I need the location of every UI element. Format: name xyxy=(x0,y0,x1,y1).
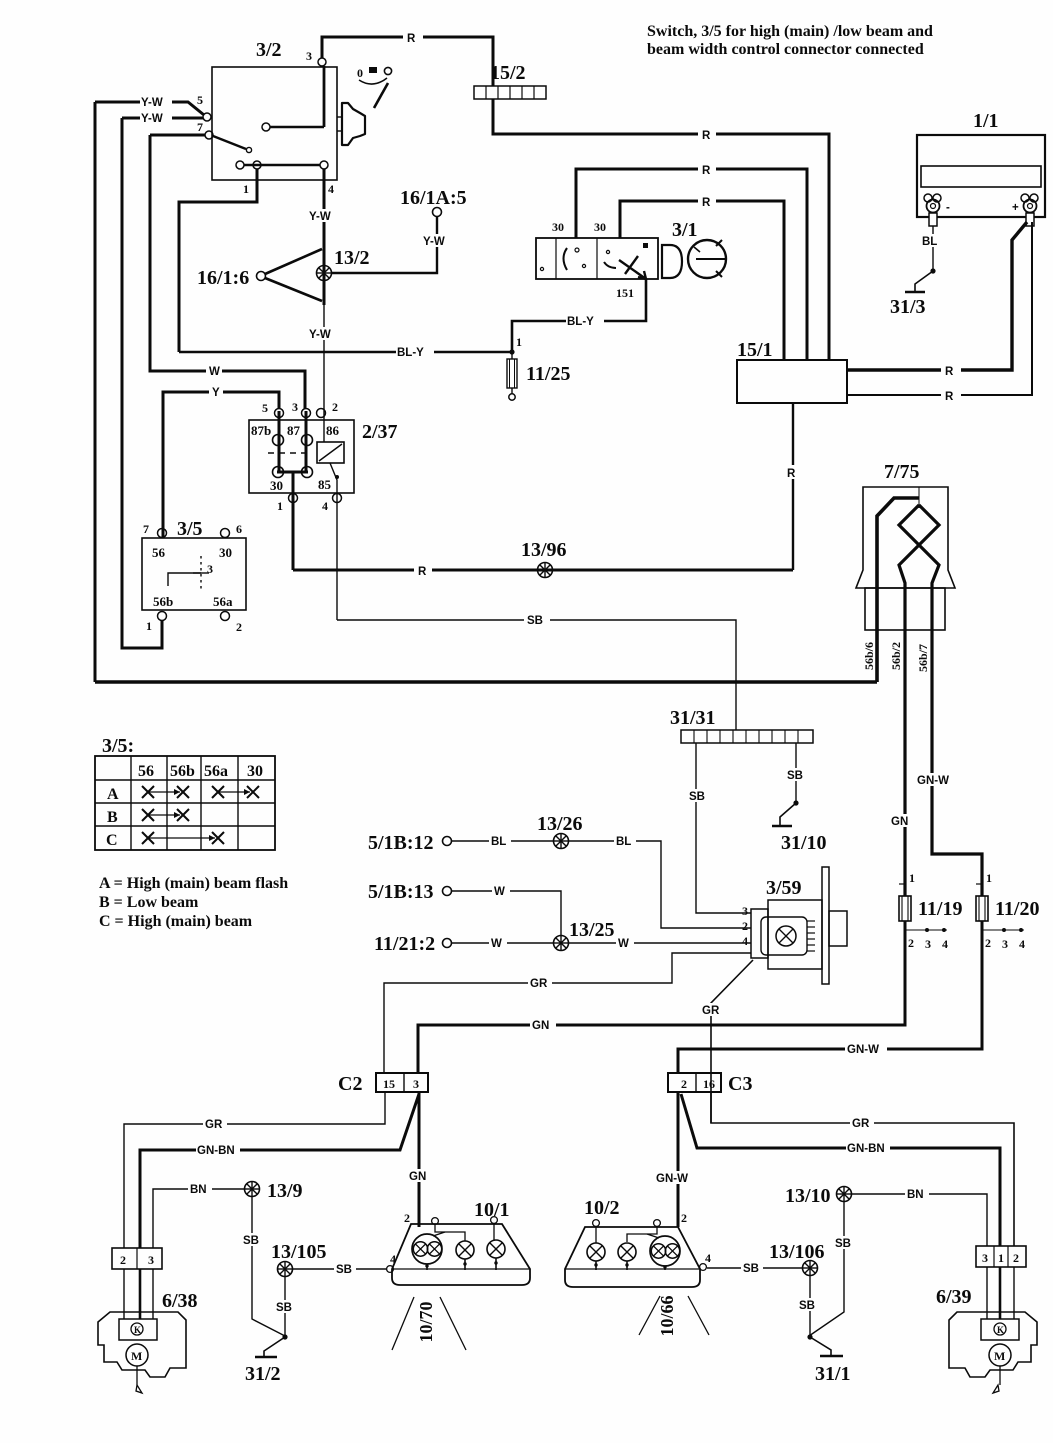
second left vertical wire to 3/5 pin1 xyxy=(122,118,162,648)
svg-text:K: K xyxy=(134,1325,141,1335)
svg-text:10/2: 10/2 xyxy=(584,1197,620,1219)
svg-text:13/105: 13/105 xyxy=(271,1241,327,1263)
ignition switch 3/1 xyxy=(536,219,698,300)
ground 31/1 xyxy=(807,1334,850,1385)
svg-text:11/25: 11/25 xyxy=(526,363,570,385)
wire R from 15/1 down to 13/96 line xyxy=(783,403,803,570)
svg-text:R: R xyxy=(702,165,711,177)
svg-text:56a: 56a xyxy=(204,763,228,780)
svg-text:4: 4 xyxy=(942,937,948,951)
svg-text:GR: GR xyxy=(852,1118,870,1130)
svg-text:2: 2 xyxy=(908,936,914,950)
svg-text:6: 6 xyxy=(236,522,242,536)
battery 1/1 xyxy=(917,110,1045,226)
connector 3|1|2 right xyxy=(976,1246,1026,1267)
svg-text:B = Low beam: B = Low beam xyxy=(99,894,199,911)
header note text line 1 xyxy=(647,23,933,58)
svg-text:M: M xyxy=(994,1349,1005,1363)
svg-text:GN-W: GN-W xyxy=(656,1173,688,1185)
svg-text:56: 56 xyxy=(152,545,166,560)
svg-text:4: 4 xyxy=(328,182,334,196)
fuse 11/25 xyxy=(507,335,570,400)
svg-text:1: 1 xyxy=(243,182,249,196)
wire SB from 13/10 to ground 31/1 xyxy=(809,1202,855,1336)
wire SB from relay 85 to 31/31 xyxy=(337,613,736,730)
svg-text:SB: SB xyxy=(787,770,803,782)
svg-text:10/70: 10/70 xyxy=(416,1301,436,1342)
svg-text:1: 1 xyxy=(909,871,915,885)
svg-text:10/66: 10/66 xyxy=(657,1295,677,1336)
svg-text:56b: 56b xyxy=(153,594,173,609)
svg-text:1: 1 xyxy=(998,1251,1004,1265)
svg-text:31/3: 31/3 xyxy=(890,296,926,318)
svg-text:2: 2 xyxy=(681,1211,687,1225)
svg-text:BL: BL xyxy=(616,836,631,848)
wire SB from 31/31 to 3/59 pin3 xyxy=(687,743,751,913)
svg-text:13/106: 13/106 xyxy=(769,1241,825,1263)
terminal 16/1A:5 xyxy=(332,187,467,273)
svg-text:0: 0 xyxy=(357,66,363,80)
svg-text:3: 3 xyxy=(413,1077,419,1091)
wire R from 15/2 to 15/1 xyxy=(493,99,829,360)
wire GN label on middle leg xyxy=(889,814,915,828)
svg-text:BN: BN xyxy=(190,1184,207,1196)
svg-text:5: 5 xyxy=(262,401,268,415)
wire W from 3/2 pin7 down and to relay pin3 xyxy=(150,135,305,409)
connector 7/75 (load compensation) xyxy=(856,461,955,630)
svg-text:A = High (main) beam flash: A = High (main) beam flash xyxy=(99,875,288,892)
svg-text:beam width control connector c: beam width control connector connected xyxy=(647,41,924,58)
svg-text:2: 2 xyxy=(985,936,991,950)
connector C2 xyxy=(338,1073,428,1095)
wire SB from 13/106 to ground 31/1 xyxy=(797,1276,819,1336)
svg-text:11/20: 11/20 xyxy=(995,898,1039,920)
wire GR from C2 down to left connector xyxy=(124,1092,385,1248)
svg-text:R: R xyxy=(945,366,954,378)
knob icon of 3/2 xyxy=(337,103,365,145)
svg-text:1/1: 1/1 xyxy=(973,110,999,132)
lever icon near 3/2 xyxy=(357,66,392,108)
svg-text:GR: GR xyxy=(205,1119,223,1131)
svg-text:SB: SB xyxy=(527,615,543,627)
left border vertical wire (outer) xyxy=(94,102,97,682)
svg-text:3: 3 xyxy=(207,562,213,576)
wire GN-W from C3 down to lamp 10/2 xyxy=(655,1092,697,1227)
ground strip 31/31 xyxy=(670,707,813,743)
svg-text:87b: 87b xyxy=(251,423,271,438)
svg-text:Y-W: Y-W xyxy=(141,97,163,109)
svg-text:7/75: 7/75 xyxy=(884,461,920,483)
svg-text:A: A xyxy=(107,786,119,803)
svg-text:Y-W: Y-W xyxy=(141,113,163,125)
wire BL-Y from left vertical to junction and ignition 151 xyxy=(179,279,646,359)
svg-text:5/1B:13: 5/1B:13 xyxy=(368,881,434,903)
svg-text:BL: BL xyxy=(922,236,937,248)
svg-text:30: 30 xyxy=(552,220,564,234)
wire R from 3/2 pin3 to fuse 15/2 xyxy=(322,37,493,86)
svg-text:2: 2 xyxy=(120,1253,126,1267)
connector 2|3 left xyxy=(112,1248,162,1269)
svg-text:2: 2 xyxy=(404,1211,410,1225)
ground 31/10 xyxy=(772,800,827,854)
svg-text:3: 3 xyxy=(742,904,748,918)
svg-text:GN: GN xyxy=(532,1020,549,1032)
label 10/66 with rays xyxy=(639,1295,709,1336)
table 3/5 contact chart xyxy=(95,735,275,850)
svg-text:4: 4 xyxy=(742,934,748,948)
svg-text:4: 4 xyxy=(390,1252,396,1266)
svg-text:13/26: 13/26 xyxy=(537,813,583,835)
switch 3/59 (beam width control) xyxy=(742,867,847,984)
svg-text:56b/6: 56b/6 xyxy=(862,642,876,670)
wire GN-W from 11/20 down to C3 xyxy=(678,921,982,1073)
svg-text:31/1: 31/1 xyxy=(815,1363,851,1385)
svg-text:Switch, 3/5 for high (main) /l: Switch, 3/5 for high (main) /low beam an… xyxy=(647,23,933,40)
svg-text:1: 1 xyxy=(516,335,522,349)
table row B contacts xyxy=(142,809,189,821)
wire GR from 3/59 to C2 xyxy=(384,953,751,1073)
wire R from relay pin30 down to 13/96 line xyxy=(292,472,295,570)
svg-text:56b/7: 56b/7 xyxy=(916,644,930,672)
svg-text:2: 2 xyxy=(1013,1251,1019,1265)
svg-text:85: 85 xyxy=(318,477,332,492)
svg-text:16: 16 xyxy=(703,1077,715,1091)
svg-text:W: W xyxy=(209,366,220,378)
svg-text:R: R xyxy=(702,197,711,209)
svg-text:B: B xyxy=(107,809,118,826)
svg-text:GN-BN: GN-BN xyxy=(847,1143,885,1155)
svg-text:7: 7 xyxy=(143,522,149,536)
svg-text:W: W xyxy=(618,938,629,950)
wire GN-W label on right leg xyxy=(916,773,958,787)
svg-text:C = High (main) beam: C = High (main) beam xyxy=(99,913,253,930)
terminal 5/1B:12 with wire BL to 13/26 and 3/59 pin2 xyxy=(368,813,751,928)
wire GN-BN from C3 to right connector xyxy=(681,1094,1000,1246)
fuse 11/19 xyxy=(899,871,962,951)
relay internal thick contacts xyxy=(277,411,308,472)
svg-text:Y-W: Y-W xyxy=(423,236,445,248)
motor 6/38 (headlamp wiper) xyxy=(98,1290,198,1393)
ground 31/3 xyxy=(890,268,936,318)
svg-text:56b/2: 56b/2 xyxy=(889,642,903,670)
svg-text:5: 5 xyxy=(197,93,203,107)
wire SB from 31/31 to ground 31/10 xyxy=(785,743,807,802)
wires from connector into 6/38 xyxy=(124,1269,153,1319)
svg-text:M: M xyxy=(131,1349,142,1363)
svg-text:3: 3 xyxy=(292,400,298,414)
svg-text:Y-W: Y-W xyxy=(309,211,331,223)
switch 3/2 (headlamp switch) xyxy=(197,39,337,196)
svg-text:56a: 56a xyxy=(213,594,233,609)
wire R ignition to 15/1 (lower) xyxy=(620,201,784,360)
switch 3/5 xyxy=(142,518,246,634)
svg-text:1: 1 xyxy=(146,619,152,633)
junction box 15/1 xyxy=(737,339,847,403)
wire R battery plus to 15/1 (thick) xyxy=(847,222,1027,370)
terminal 11/21:2 with wire W to 13/25 and 3/59 pin4 xyxy=(374,919,751,955)
svg-text:C: C xyxy=(106,832,118,849)
svg-text:31/10: 31/10 xyxy=(781,832,827,854)
svg-text:30: 30 xyxy=(594,220,606,234)
svg-text:30: 30 xyxy=(219,545,232,560)
svg-text:R: R xyxy=(702,130,711,142)
wire BL battery minus to ground 31/3 xyxy=(921,226,945,270)
svg-text:15/2: 15/2 xyxy=(490,62,526,84)
key symbol of 3/1 xyxy=(662,240,726,278)
svg-text:1: 1 xyxy=(986,871,992,885)
connector C3 xyxy=(668,1073,752,1095)
wire BN with node 13/9 xyxy=(153,1180,303,1248)
svg-text:3/5:: 3/5: xyxy=(102,735,134,757)
wire SB from 13/105 to ground 31/2 xyxy=(274,1277,296,1336)
wire from relay coil 85 down to SB line xyxy=(330,463,339,620)
wire GR from C3 region to right connector xyxy=(711,1092,1014,1246)
svg-text:BN: BN xyxy=(907,1189,924,1201)
svg-text:GN: GN xyxy=(891,816,908,828)
wire Y-W from left border to 3/2 pin5 xyxy=(95,95,204,115)
wire GN from 11/19 down to C2 xyxy=(418,921,905,1073)
svg-text:Y: Y xyxy=(212,387,220,399)
svg-text:Y-W: Y-W xyxy=(309,329,331,341)
svg-text:SB: SB xyxy=(276,1302,292,1314)
7/75 zigzag element legs 56b/2 and 56b/7 xyxy=(899,505,982,896)
svg-text:2: 2 xyxy=(236,620,242,634)
svg-text:13/96: 13/96 xyxy=(521,539,567,561)
svg-text:16/1A:5: 16/1A:5 xyxy=(400,187,467,209)
svg-text:2: 2 xyxy=(742,919,748,933)
node 13/10 and wire BN to right connector xyxy=(785,1185,987,1246)
ground 31/2 xyxy=(245,1334,288,1385)
svg-text:16/1:6: 16/1:6 xyxy=(197,267,249,289)
svg-text:K: K xyxy=(997,1325,1004,1335)
svg-text:2: 2 xyxy=(332,400,338,414)
svg-text:3: 3 xyxy=(1002,937,1008,951)
svg-text:31/2: 31/2 xyxy=(245,1363,281,1385)
svg-text:3/59: 3/59 xyxy=(766,877,802,899)
svg-text:56: 56 xyxy=(138,763,154,780)
svg-text:13/25: 13/25 xyxy=(569,919,615,941)
svg-text:2: 2 xyxy=(681,1077,687,1091)
svg-text:87: 87 xyxy=(287,423,301,438)
svg-text:13/9: 13/9 xyxy=(267,1180,303,1202)
legend text xyxy=(99,875,288,930)
long bottom wire from left border to 7/75 xyxy=(95,680,877,684)
svg-text:15/1: 15/1 xyxy=(737,339,773,361)
relay 2/37 xyxy=(249,400,398,513)
svg-text:BL: BL xyxy=(491,836,506,848)
svg-text:5/1B:12: 5/1B:12 xyxy=(368,832,434,854)
svg-text:W: W xyxy=(491,938,502,950)
table row C contacts xyxy=(142,832,224,844)
svg-text:R: R xyxy=(787,468,796,480)
svg-text:GN-W: GN-W xyxy=(847,1044,879,1056)
wire R ignition to 15/1 (middle) xyxy=(576,169,807,360)
node 13/2 (soldered junction) xyxy=(317,247,370,281)
svg-text:SB: SB xyxy=(336,1264,352,1276)
svg-text:30: 30 xyxy=(247,763,263,780)
svg-text:151: 151 xyxy=(616,286,634,300)
wire R line with node 13/96 xyxy=(293,539,793,578)
svg-text:R: R xyxy=(945,391,954,403)
wires from right connector into 6/39 xyxy=(987,1267,1014,1321)
svg-text:SB: SB xyxy=(689,791,705,803)
fuse 15/2 xyxy=(474,62,546,99)
svg-text:3: 3 xyxy=(925,937,931,951)
svg-text:R: R xyxy=(418,566,427,578)
svg-text:86: 86 xyxy=(326,423,340,438)
svg-text:56b: 56b xyxy=(170,763,195,780)
svg-text:-: - xyxy=(946,202,950,214)
svg-text:13/2: 13/2 xyxy=(334,247,370,269)
svg-text:SB: SB xyxy=(743,1263,759,1275)
wire R battery plus to 15/1 (second) xyxy=(847,222,1032,395)
svg-text:+: + xyxy=(1012,202,1019,214)
svg-text:R: R xyxy=(407,33,416,45)
svg-text:3: 3 xyxy=(982,1251,988,1265)
svg-text:31/31: 31/31 xyxy=(670,707,716,729)
svg-text:3: 3 xyxy=(148,1253,154,1267)
svg-text:3: 3 xyxy=(306,49,312,63)
svg-text:15: 15 xyxy=(383,1077,395,1091)
svg-text:3/1: 3/1 xyxy=(672,219,698,241)
label 10/70 with rays xyxy=(392,1297,466,1350)
wire Y from 3/5 pin7 to relay pin5 xyxy=(163,385,279,537)
svg-text:SB: SB xyxy=(835,1238,851,1250)
svg-text:W: W xyxy=(494,886,505,898)
svg-text:11/21:2: 11/21:2 xyxy=(374,933,435,955)
svg-text:GN: GN xyxy=(409,1171,426,1183)
wire Y-W from 3/2 pin4 down to relay coil xyxy=(308,169,340,442)
svg-text:11/19: 11/19 xyxy=(918,898,962,920)
headlamp 10/1 xyxy=(387,1199,530,1285)
wire from 3/2 pin1 down left side xyxy=(179,169,257,352)
wire Y-W second to 3/2 pin5 xyxy=(122,111,203,125)
svg-text:SB: SB xyxy=(799,1300,815,1312)
svg-text:4: 4 xyxy=(322,499,328,513)
svg-text:6/39: 6/39 xyxy=(936,1286,972,1308)
svg-text:30: 30 xyxy=(270,478,283,493)
wire GN from C2 down to lamp 10/1 xyxy=(407,1092,433,1227)
7/75 internal thick lead (56b/6) xyxy=(877,498,919,682)
svg-text:3/2: 3/2 xyxy=(256,39,282,61)
motor 6/39 (headlamp wiper) xyxy=(936,1286,1037,1393)
fuse 11/20 xyxy=(976,871,1039,951)
svg-text:1: 1 xyxy=(277,499,283,513)
svg-text:13/10: 13/10 xyxy=(785,1185,831,1207)
svg-text:7: 7 xyxy=(197,120,203,134)
node 13/106 and wire SB to lamp 10/2 xyxy=(707,1241,825,1276)
terminal 5/1B:13 with wire W to 13/25 xyxy=(368,881,561,936)
wire SB from 13/9 to ground 31/2 xyxy=(241,1197,285,1336)
svg-text:4: 4 xyxy=(705,1251,711,1265)
svg-text:C3: C3 xyxy=(728,1073,752,1095)
wire GN-BN from C2 to left connector xyxy=(140,1094,419,1248)
wire GR from 3/59 to C3 xyxy=(700,960,753,1123)
node 13/105 and wire SB to lamp 10/1 xyxy=(271,1241,386,1277)
svg-text:6/38: 6/38 xyxy=(162,1290,198,1312)
svg-text:BL-Y: BL-Y xyxy=(397,347,424,359)
terminal 16/1:6 with branch triangle xyxy=(197,249,322,301)
svg-text:2/37: 2/37 xyxy=(362,421,398,443)
headlamp 10/2 xyxy=(565,1197,711,1287)
svg-text:3/5: 3/5 xyxy=(177,518,203,540)
svg-text:GR: GR xyxy=(702,1005,720,1017)
svg-text:C2: C2 xyxy=(338,1073,362,1095)
svg-text:GR: GR xyxy=(530,978,548,990)
svg-text:GN-W: GN-W xyxy=(917,775,949,787)
table row A contacts xyxy=(142,786,259,798)
svg-text:GN-BN: GN-BN xyxy=(197,1145,235,1157)
svg-text:BL-Y: BL-Y xyxy=(567,316,594,328)
svg-text:SB: SB xyxy=(243,1235,259,1247)
svg-text:4: 4 xyxy=(1019,937,1025,951)
